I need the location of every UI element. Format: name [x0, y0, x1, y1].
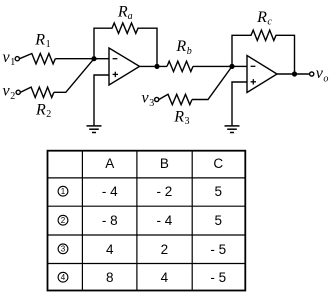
svg-text:A: A	[105, 156, 114, 171]
svg-text:- 8: - 8	[102, 213, 118, 228]
svg-text:4: 4	[61, 273, 66, 282]
wire R2 to node A (diagonal)	[54, 59, 94, 93]
row label circled 1	[58, 186, 68, 196]
svg-text:o: o	[323, 74, 328, 85]
wire node C to U2 inverting input	[232, 65, 247, 67]
wire U2 noninverting input to ground	[232, 82, 247, 126]
svg-text:3: 3	[61, 245, 66, 254]
ground GND1	[87, 125, 102, 127]
row label circled 3	[58, 244, 68, 254]
svg-text:8: 8	[106, 270, 114, 285]
terminal v3	[155, 97, 159, 101]
svg-text:5: 5	[215, 213, 223, 228]
resistor R2	[21, 87, 54, 97]
svg-text:v: v	[142, 90, 150, 107]
svg-text:- 5: - 5	[210, 270, 226, 285]
table frame	[48, 151, 246, 291]
node B (U1 output junction)	[154, 64, 159, 69]
svg-text:- 4: - 4	[102, 184, 118, 199]
resistor Rb	[167, 61, 193, 71]
svg-text:R: R	[173, 109, 184, 126]
wire U1 noninverting input to ground	[94, 75, 109, 126]
svg-text:R: R	[34, 32, 45, 49]
svg-text:R: R	[175, 38, 186, 55]
feedback resistor Rc loop	[232, 30, 295, 74]
svg-text:B: B	[160, 156, 169, 171]
svg-text:4: 4	[106, 242, 114, 257]
svg-text:b: b	[187, 46, 192, 57]
svg-text:2: 2	[46, 109, 51, 120]
wire Rb to node C	[193, 65, 232, 67]
ground GND2	[225, 125, 240, 127]
op-amp U2	[247, 56, 277, 93]
node C (junction Rb,R3,Rc,U2 inverting)	[229, 64, 234, 69]
svg-text:a: a	[128, 11, 133, 22]
svg-text:R: R	[256, 9, 267, 26]
svg-text:3: 3	[185, 116, 190, 127]
svg-text:1: 1	[61, 187, 66, 196]
table column lines	[81, 151, 83, 291]
svg-text:4: 4	[161, 270, 169, 285]
node D (U2 output junction)	[292, 71, 297, 76]
svg-text:C: C	[213, 156, 223, 171]
svg-text:1: 1	[10, 57, 15, 68]
wire node A to U1 inverting input	[94, 58, 109, 60]
terminal v2	[16, 90, 20, 94]
svg-text:2: 2	[10, 91, 15, 102]
svg-text:2: 2	[61, 216, 66, 225]
wire U1 output to node B	[140, 65, 168, 67]
svg-text:1: 1	[46, 39, 51, 50]
svg-text:5: 5	[215, 184, 223, 199]
wire R3 to node C (diagonal)	[192, 66, 232, 99]
resistor R1	[20, 54, 56, 64]
svg-text:v: v	[3, 49, 11, 66]
resistor R3	[159, 94, 192, 104]
svg-text:3: 3	[149, 98, 154, 109]
feedback resistor Ra loop	[94, 23, 157, 66]
row label circled 2	[58, 215, 68, 225]
svg-text:R: R	[35, 102, 46, 119]
svg-text:v: v	[3, 83, 11, 100]
svg-text:- 4: - 4	[157, 213, 173, 228]
row label circled 4	[58, 272, 68, 282]
svg-text:c: c	[267, 17, 272, 28]
wire U2 output to terminal vo	[277, 73, 310, 75]
terminal vo	[310, 72, 314, 76]
op-amp U1	[109, 48, 140, 85]
table row lines	[48, 177, 246, 179]
svg-text:- 5: - 5	[210, 242, 226, 257]
svg-text:- 2: - 2	[157, 184, 173, 199]
svg-text:R: R	[117, 4, 128, 21]
svg-text:2: 2	[161, 242, 169, 257]
node A (junction R1,R2,Ra,U1 inverting)	[91, 56, 96, 61]
terminal v1	[15, 57, 19, 61]
wire R1 to node A	[55, 58, 94, 60]
